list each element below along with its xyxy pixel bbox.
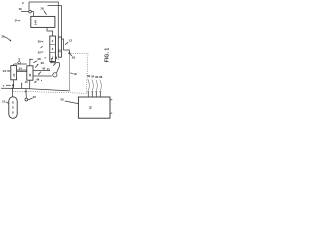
capsule drop xyxy=(12,88,14,97)
stub arrow up xyxy=(21,83,23,88)
leader 18 xyxy=(44,11,47,15)
wire box20 drop xyxy=(13,80,15,89)
wire box22 drop xyxy=(29,80,31,88)
junction dot small xyxy=(25,91,27,93)
svg-text:40: 40 xyxy=(33,95,37,99)
diamond valve xyxy=(18,61,21,64)
leader 32 dash xyxy=(41,51,43,53)
svg-text:10: 10 xyxy=(2,99,6,103)
svg-text:2: 2 xyxy=(52,39,54,43)
stack divider 1 xyxy=(50,44,56,46)
wire box22 right lower xyxy=(33,75,52,77)
capsule 10 (filter) xyxy=(9,97,17,119)
leader 18b xyxy=(70,73,73,74)
wire duct outer wall xyxy=(29,2,58,37)
pin marks xyxy=(54,57,56,59)
leader 26 xyxy=(70,54,72,56)
stub with T-cap xyxy=(51,59,53,63)
junction dot xyxy=(68,52,70,54)
right edge tick 1 xyxy=(110,98,112,101)
svg-text:36: 36 xyxy=(1,34,5,38)
stub arrowhead xyxy=(21,82,22,84)
box 22 (right pump) xyxy=(27,66,33,80)
box 14 (engine) xyxy=(31,16,55,27)
svg-text:50: 50 xyxy=(89,106,93,110)
dashed wire right xyxy=(71,52,88,54)
svg-text:140: 140 xyxy=(33,20,37,25)
wire valve drop xyxy=(28,2,30,10)
muffler box 12 xyxy=(58,37,61,57)
svg-text:34: 34 xyxy=(19,66,23,70)
T cap xyxy=(51,58,53,60)
arrow to stack xyxy=(53,63,55,65)
main bottom wire xyxy=(1,88,70,91)
pin 4 xyxy=(99,92,101,97)
leader 40 xyxy=(28,98,33,100)
svg-text:12: 12 xyxy=(69,39,73,43)
wire between boxes upper xyxy=(17,69,27,71)
box 20 (left pump) xyxy=(11,66,17,80)
leader dot 36b xyxy=(10,40,12,42)
faint dot xyxy=(41,80,42,81)
svg-text:18: 18 xyxy=(40,7,44,11)
wire under stack xyxy=(50,62,60,64)
right edge tick 2 xyxy=(110,112,112,115)
wire down to pump xyxy=(56,63,59,73)
leader 30 dash xyxy=(41,41,43,43)
arrowhead 46 xyxy=(34,81,36,83)
leader down-left xyxy=(38,72,41,75)
svg-text:6: 6 xyxy=(52,47,54,51)
svg-text:34: 34 xyxy=(15,19,18,23)
svg-text:26: 26 xyxy=(41,61,45,65)
leader 46 xyxy=(35,81,37,83)
svg-text:46: 46 xyxy=(36,77,40,81)
riser arrowhead xyxy=(29,58,30,60)
svg-text:16: 16 xyxy=(18,7,22,11)
controller box 50 xyxy=(78,97,110,118)
dashed wire bottom xyxy=(13,91,86,93)
svg-text:26: 26 xyxy=(72,55,76,59)
arrowhead down-left xyxy=(38,73,40,75)
svg-text:30: 30 xyxy=(60,98,64,102)
arrow up-right xyxy=(35,64,38,67)
svg-text:18: 18 xyxy=(28,73,32,76)
svg-text:32: 32 xyxy=(38,50,42,54)
pin 2 xyxy=(91,92,93,97)
arrowhead up-right xyxy=(37,64,39,66)
wire between boxes lower xyxy=(17,71,27,73)
pin leader 1 xyxy=(88,79,89,90)
wire above box 22 xyxy=(30,59,33,66)
svg-text:34: 34 xyxy=(3,69,7,73)
wire muffler to junction xyxy=(61,39,69,53)
svg-text:18: 18 xyxy=(73,72,77,76)
svg-text:8: 8 xyxy=(12,105,14,109)
svg-text:FIG. 1: FIG. 1 xyxy=(105,48,111,63)
pin leader 3 xyxy=(96,80,97,91)
box20 riser xyxy=(13,64,15,66)
svg-text:x: x xyxy=(3,84,5,88)
wire box14 to stack xyxy=(47,28,53,36)
sensor circle S1 xyxy=(25,98,28,101)
svg-text:46: 46 xyxy=(25,81,28,84)
wire tick xyxy=(18,20,20,22)
inlet arrow xyxy=(7,70,10,72)
dashed wire down xyxy=(86,53,88,93)
svg-text:8: 8 xyxy=(12,110,14,114)
pin 1 xyxy=(87,92,89,97)
pin leader 2 xyxy=(92,80,93,91)
svg-text:2: 2 xyxy=(22,1,24,5)
svg-text:8: 8 xyxy=(12,100,14,104)
leader tick xyxy=(41,46,43,48)
valve V1 xyxy=(29,10,32,13)
pin 3 xyxy=(95,92,97,97)
svg-text:x: x xyxy=(45,56,47,59)
stack box (three cells) xyxy=(50,36,56,62)
pin marks 2 xyxy=(56,57,58,59)
pin leader 4 xyxy=(100,80,101,91)
top link wire xyxy=(14,63,27,65)
svg-text:22: 22 xyxy=(58,49,62,53)
leader x2 xyxy=(6,84,11,86)
stack divider 2 xyxy=(50,52,56,54)
leader line 36b xyxy=(4,37,10,40)
sense wire vertical xyxy=(68,54,70,91)
svg-text:30: 30 xyxy=(38,40,42,44)
pump circle P1 xyxy=(53,73,57,77)
wire valve to box 14 xyxy=(31,12,33,17)
wire duct inner wall xyxy=(48,6,62,38)
wire to valve left xyxy=(21,11,29,13)
arrowhead xyxy=(54,63,56,65)
junction dot main xyxy=(12,87,14,89)
leader 28 xyxy=(33,61,37,63)
svg-text:20: 20 xyxy=(12,73,16,76)
svg-text:38: 38 xyxy=(99,75,103,79)
junction dot 38 xyxy=(12,84,14,86)
leader 10 xyxy=(6,102,9,103)
svg-text:42: 42 xyxy=(42,66,46,70)
wire box22 right upper xyxy=(33,69,50,71)
leader 12 xyxy=(65,42,68,45)
sensor stub xyxy=(25,89,27,99)
leader 30b xyxy=(65,101,78,104)
pin dot xyxy=(58,59,59,60)
inlet arrowhead xyxy=(9,70,11,71)
leader 4 xyxy=(18,60,20,61)
